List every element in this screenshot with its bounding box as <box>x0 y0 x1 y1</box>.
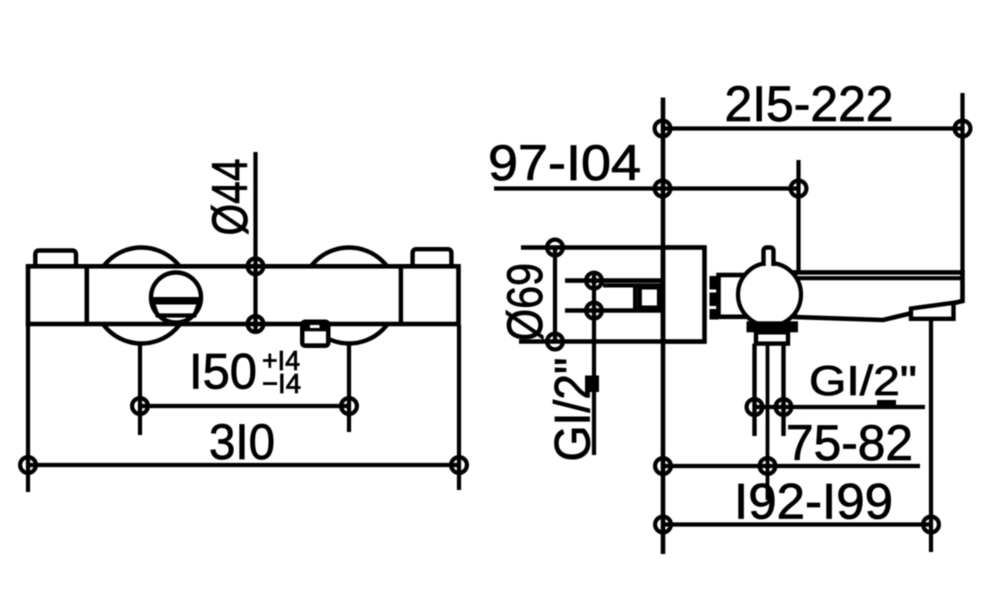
svg-text:97-I04: 97-I04 <box>488 135 641 191</box>
svg-text:Ø69: Ø69 <box>497 263 553 341</box>
svg-text:Ø44: Ø44 <box>202 159 258 236</box>
svg-text:I92-I99: I92-I99 <box>734 474 893 530</box>
svg-text:GI/2": GI/2" <box>809 357 917 404</box>
svg-text:−I4: −I4 <box>262 368 301 399</box>
svg-text:75-82: 75-82 <box>786 415 913 471</box>
svg-text:I50: I50 <box>189 344 257 400</box>
svg-text:GI/2": GI/2" <box>545 358 601 462</box>
svg-text:2I5-222: 2I5-222 <box>725 76 894 132</box>
svg-text:3I0: 3I0 <box>209 414 275 470</box>
